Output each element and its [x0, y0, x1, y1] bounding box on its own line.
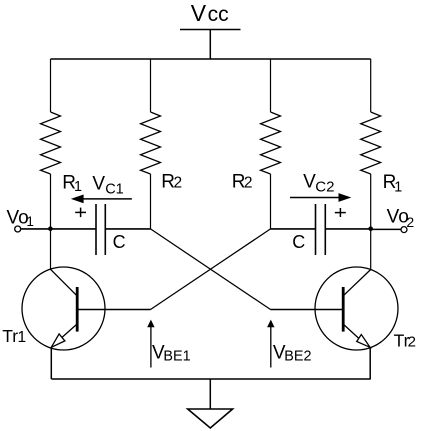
svg-text:V: V — [303, 172, 316, 193]
label VC2 with arrow — [303, 172, 334, 196]
wire node to capacitor C right — [271, 228, 316, 230]
label Tr2 — [394, 331, 416, 351]
label VBE2 — [273, 342, 312, 364]
svg-text:V: V — [191, 0, 207, 26]
wire drop to R2 right — [270, 59, 272, 112]
Vcc label — [191, 0, 229, 26]
label R1 right — [383, 172, 403, 196]
svg-text:1: 1 — [394, 180, 402, 196]
svg-text:1: 1 — [74, 179, 82, 195]
svg-text:BE1: BE1 — [163, 349, 190, 365]
terminal Vo2 — [401, 227, 407, 233]
resistor R2 (left) — [141, 112, 161, 174]
label C right — [292, 232, 305, 252]
wire R1 right bottom lead — [370, 174, 372, 229]
arrow VBE2 (pointing up) — [267, 320, 274, 368]
arrow VC2 (pointing right) — [290, 193, 351, 202]
svg-text:Vo: Vo — [7, 207, 29, 228]
wire Vo1 to capacitor C left — [21, 228, 96, 230]
wire capacitor C left to node — [105, 228, 150, 230]
transistor Tr2 — [315, 267, 398, 350]
svg-text:C: C — [113, 232, 126, 252]
wire Tr1 collector lead — [50, 229, 52, 269]
svg-text:C1: C1 — [105, 182, 124, 198]
wire Tr2 emitter lead — [369, 347, 371, 379]
label Vo2 — [387, 207, 415, 230]
wire cross-coupling: right node to Tr1 base — [151, 229, 271, 310]
wire R1 left bottom lead — [50, 174, 52, 229]
wire Tr1 base lead — [77, 309, 151, 311]
svg-text:BE2: BE2 — [284, 349, 311, 365]
resistor R2 (right) — [261, 112, 281, 174]
node junction dot left — [48, 226, 53, 231]
resistor R1 (right) — [361, 112, 381, 174]
wire node to Vo2 terminal — [371, 228, 401, 230]
wire drop to R1 left — [50, 59, 52, 112]
node junction dot right — [368, 226, 373, 231]
wire drop to R1 right — [370, 59, 372, 112]
ground — [188, 379, 233, 428]
label R2 right — [232, 172, 253, 193]
label + polarity left — [75, 208, 86, 218]
wire capacitor C right to Vo2 node — [325, 228, 370, 230]
svg-text:V: V — [92, 174, 105, 195]
label R2 left — [161, 172, 182, 193]
wire R2 left bottom lead — [150, 174, 152, 229]
svg-text:2: 2 — [174, 175, 183, 192]
label VBE1 — [152, 342, 191, 364]
terminal Vo1 — [15, 226, 21, 232]
wire drop to R2 left — [150, 59, 152, 112]
label R1 left — [62, 172, 82, 195]
svg-text:C: C — [292, 232, 305, 252]
label + polarity right — [335, 208, 346, 217]
svg-text:1: 1 — [18, 329, 27, 346]
arrow VC1 (pointing left) — [71, 195, 132, 204]
svg-text:2: 2 — [244, 175, 253, 192]
wire R2 right bottom lead — [270, 174, 272, 229]
svg-text:2: 2 — [408, 334, 416, 351]
svg-text:1: 1 — [26, 214, 34, 229]
svg-text:2: 2 — [406, 214, 414, 230]
capacitor C (right) — [316, 204, 326, 255]
label Tr1 — [2, 326, 26, 346]
wire Tr2 collector lead — [370, 229, 372, 270]
svg-text:C2: C2 — [315, 179, 334, 196]
wire cross-coupling: left node to Tr2 base — [151, 229, 271, 310]
wire Tr1 emitter lead — [50, 347, 52, 379]
label C left — [113, 232, 126, 252]
wire bottom rail — [51, 378, 370, 380]
power Vcc symbol — [180, 30, 241, 60]
label Vo1 — [7, 207, 34, 229]
transistor Tr1 — [22, 267, 105, 350]
wire top rail — [51, 58, 371, 60]
resistor R1 (left) — [41, 112, 61, 174]
svg-text:Tr: Tr — [2, 326, 18, 346]
svg-text:cc: cc — [208, 3, 229, 26]
label VC1 with arrow — [92, 174, 123, 198]
capacitor C (left) — [96, 204, 105, 255]
wire Tr2 base lead — [271, 309, 344, 311]
arrow VBE1 (pointing up) — [147, 320, 154, 368]
